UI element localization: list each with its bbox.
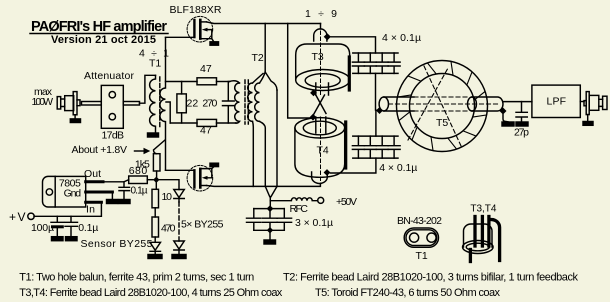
T2 funnel to RFC node xyxy=(265,186,277,208)
T2 core xyxy=(245,80,248,124)
dashed wire (5x chain) xyxy=(178,202,180,241)
7805 regulator xyxy=(34,176,112,216)
wire T4 dot to bottom cap bank xyxy=(331,158,376,173)
T2 bottom leads xyxy=(252,121,255,186)
capacitor 100u electrolytic xyxy=(51,216,64,222)
ground (7805 gnd pin) xyxy=(107,200,118,204)
svg-text:T4: T4 xyxy=(317,145,329,157)
svg-text:3 × 0.1µ: 3 × 0.1µ xyxy=(295,217,333,229)
svg-text:In: In xyxy=(86,204,95,216)
svg-text:10: 10 xyxy=(162,191,173,203)
svg-text:17dB: 17dB xyxy=(102,130,125,142)
wire cross T3-T4 xyxy=(313,95,326,115)
T2 bifilar winding B xyxy=(255,83,260,121)
choke RFC xyxy=(270,198,317,201)
svg-text:BN-43-202: BN-43-202 xyxy=(397,215,442,227)
bias junction dot xyxy=(153,177,159,183)
wire dot to ground xyxy=(503,115,508,122)
svg-text:100W: 100W xyxy=(32,96,54,108)
T4 bottom arch xyxy=(312,172,328,184)
upper feedback row wire xyxy=(166,81,198,83)
svg-text:270: 270 xyxy=(202,97,217,109)
lower feedback row wire xyxy=(170,122,197,124)
output node dot xyxy=(500,108,507,115)
svg-text:T1: T1 xyxy=(149,58,161,70)
wire top bank to T5 input xyxy=(375,73,377,110)
capacitor 0.1u (7805 out) xyxy=(119,182,130,200)
T5 coax tube left stub xyxy=(379,97,388,111)
svg-text:+50V: +50V xyxy=(336,196,357,208)
svg-text:LPF: LPF xyxy=(547,96,567,108)
diode chain D2 xyxy=(174,190,185,203)
wire upper drain bus xyxy=(207,22,321,24)
ground (3x0.1u) xyxy=(264,240,276,244)
ground (D3) xyxy=(172,255,186,259)
lower MOSFET Q2 xyxy=(166,165,214,191)
svg-text:T3,T4: T3,T4 xyxy=(470,204,496,215)
diode D3 xyxy=(174,241,185,255)
svg-text:RFC: RFC xyxy=(290,203,309,215)
svg-text:T2: Ferrite bead Laird 28B1020: T2: Ferrite bead Laird 28B1020-100, 3 tu… xyxy=(283,272,579,284)
svg-text:T1: Two hole balun, ferrite 43: T1: Two hole balun, ferrite 43, prim 2 t… xyxy=(19,272,254,284)
ground (D1) xyxy=(148,255,162,259)
labels 4÷1 T1 xyxy=(139,48,169,70)
transformer T1 secondary + gate feed line xyxy=(160,38,166,171)
transformer T2 xyxy=(230,24,278,209)
T3 inner conductors xyxy=(316,83,329,95)
ground (0.1u out) xyxy=(119,200,131,204)
svg-text:680: 680 xyxy=(129,165,148,177)
T4 inner conductors xyxy=(316,117,326,133)
svg-text:1 ÷ 9: 1 ÷ 9 xyxy=(305,8,337,20)
ground (output connector) xyxy=(583,122,593,126)
T2 top twist to drain bus xyxy=(253,24,266,84)
svg-text:4 × 0.1µ: 4 × 0.1µ xyxy=(379,162,417,174)
capacitor 27p xyxy=(516,102,527,122)
+V terminal xyxy=(28,213,34,219)
svg-text:About +1.8V: About +1.8V xyxy=(72,144,128,156)
rfc junction dot xyxy=(267,205,274,212)
T4 top dot xyxy=(310,114,317,121)
upper MOSFET Q1 BLF188XR xyxy=(166,16,214,42)
input connector J1 xyxy=(57,92,80,119)
toroid T5 xyxy=(379,61,503,152)
T2 bifilar winding A xyxy=(248,83,253,121)
svg-text:T3,T4: Ferrite bead Laird 28B: T3,T4: Ferrite bead Laird 28B1020-100, 4… xyxy=(19,287,283,299)
title underline xyxy=(30,33,168,35)
resistor 10 xyxy=(155,180,157,190)
T3 junction dot top xyxy=(324,33,331,40)
ferrite T3 xyxy=(296,24,350,97)
output connector J2 xyxy=(580,92,607,122)
T5 dashed winding chords xyxy=(408,66,462,148)
svg-text:0.1µ: 0.1µ xyxy=(78,222,98,234)
svg-text:T1: T1 xyxy=(416,250,428,262)
attenuator box xyxy=(101,85,123,128)
ground (27p) xyxy=(516,122,528,126)
svg-text:T5: Toroid FT240-43, 6 turns 5: T5: Toroid FT240-43, 6 turns 50 Ohm coax xyxy=(315,287,501,299)
svg-text:T2: T2 xyxy=(252,52,264,64)
caption line 2 xyxy=(19,287,500,299)
BN-43-202 binocular core xyxy=(404,228,438,247)
svg-text:0.1µ: 0.1µ xyxy=(131,186,148,197)
svg-text:5× BY255: 5× BY255 xyxy=(181,219,224,231)
T5 turn ticks xyxy=(398,62,485,149)
svg-text:Out: Out xyxy=(84,168,101,180)
svg-text:47: 47 xyxy=(200,125,212,137)
svg-text:T5: T5 xyxy=(436,117,448,129)
T3 body xyxy=(296,44,350,80)
T5 coax tube right stub xyxy=(468,97,477,111)
diode D1 (sensor) xyxy=(150,242,161,254)
ground (Q2 source) xyxy=(210,163,219,166)
caption line 1 xyxy=(19,272,578,284)
T3,T4 bead example xyxy=(463,217,500,262)
ground (Q1 source) xyxy=(210,42,219,45)
wire T5 to LPF xyxy=(503,101,532,103)
svg-text:22: 22 xyxy=(187,97,199,109)
svg-text:Version 21 oct 2015: Version 21 oct 2015 xyxy=(51,34,156,46)
capacitor 0.1u (+V) xyxy=(65,216,78,236)
ground (output node) xyxy=(502,122,514,126)
capacitor bank 4x0.1u top xyxy=(352,53,400,73)
wire cross-connect (upper bus down to T4 top) xyxy=(288,24,311,119)
svg-text:4 × 0.1µ: 4 × 0.1µ xyxy=(382,32,421,44)
svg-text:47: 47 xyxy=(200,63,212,75)
label max 100W xyxy=(32,86,54,108)
svg-text:470: 470 xyxy=(161,223,176,235)
T2 left winding (feedback) xyxy=(230,81,240,123)
arrow xyxy=(135,150,145,152)
capacitor C1 270 xyxy=(223,82,235,124)
resistor 680 xyxy=(129,176,148,184)
title xyxy=(31,19,167,46)
wire (secondary tap to lower feedback row) xyxy=(166,102,170,123)
svg-text:T3: T3 xyxy=(312,51,324,63)
svg-text:27p: 27p xyxy=(514,127,529,139)
svg-text:+V: +V xyxy=(9,210,26,224)
ground (T1 primary) xyxy=(148,133,159,137)
resistor R3 22 xyxy=(181,82,183,94)
svg-text:Attenuator: Attenuator xyxy=(84,70,135,82)
wire bottom bank to T5 input xyxy=(375,110,377,136)
transformer T1 primary xyxy=(150,75,156,133)
svg-text:Gnd: Gnd xyxy=(64,187,82,199)
T1 core xyxy=(159,77,161,129)
wire lower drain bus xyxy=(207,184,321,186)
T4 bottom dot xyxy=(324,169,331,176)
wire (coax line to attenuator) xyxy=(82,102,102,106)
resistor 470 xyxy=(152,217,159,237)
capacitor bank 4x0.1u bottom xyxy=(352,136,400,158)
wire T3 dot to top cap bank xyxy=(331,37,376,53)
wire (secondary to bias 1k5) xyxy=(154,140,166,154)
resistor 1k5 xyxy=(153,154,160,171)
T3 top arch xyxy=(314,29,327,41)
svg-text:BLF188XR: BLF188XR xyxy=(170,4,222,16)
LPF box xyxy=(532,85,580,117)
capacitor bank 3x0.1u xyxy=(247,209,292,240)
resistor R2 47 (lower) xyxy=(197,119,217,126)
T5 input dot xyxy=(376,107,383,114)
svg-text:Sensor BY255: Sensor BY255 xyxy=(81,238,153,250)
wire 680 to 7805 out xyxy=(103,180,129,182)
ground (100u) xyxy=(52,237,64,241)
resistor R1 47 (upper) xyxy=(197,78,217,85)
svg-text:PAØFRI's HF amplifier: PAØFRI's HF amplifier xyxy=(31,19,167,35)
T3 bottom dot xyxy=(310,90,317,97)
ferrite T4 xyxy=(295,114,346,184)
ground (input connector) xyxy=(70,119,80,123)
wire (attenuator to T1) xyxy=(123,102,139,106)
ground (0.1u +V) xyxy=(66,237,78,241)
svg-text:100µ: 100µ xyxy=(31,222,54,234)
wire bias node right to diode chain xyxy=(160,180,180,190)
